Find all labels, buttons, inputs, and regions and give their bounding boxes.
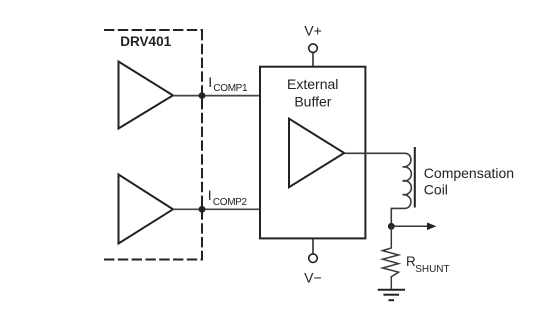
svg-text:V−: V−	[304, 269, 322, 285]
svg-text:SHUNT: SHUNT	[415, 264, 449, 275]
svg-text:DRV401: DRV401	[120, 34, 171, 49]
svg-text:COMP2: COMP2	[213, 197, 248, 208]
svg-text:Compensation: Compensation	[424, 165, 514, 181]
svg-text:External: External	[287, 76, 338, 92]
svg-text:I: I	[208, 74, 212, 90]
svg-text:COMP1: COMP1	[213, 83, 248, 94]
svg-text:V+: V+	[304, 23, 322, 39]
svg-text:Buffer: Buffer	[294, 93, 331, 109]
svg-text:Coil: Coil	[424, 181, 448, 197]
svg-text:I: I	[208, 187, 212, 203]
